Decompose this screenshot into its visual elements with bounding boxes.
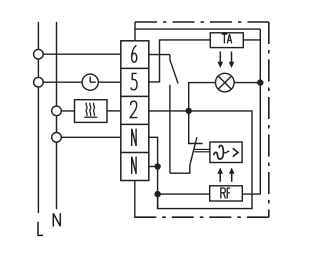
wire RF right — [242, 193, 260, 195]
arrow TA down 2 — [229, 52, 235, 69]
wire top bus — [135, 28, 260, 30]
terminal label 6 — [132, 45, 137, 62]
terminal label 2 — [130, 101, 137, 117]
wire L to clock to terminal 5 — [38, 81, 82, 83]
terminal label N2 — [132, 157, 136, 174]
lamp — [216, 73, 235, 92]
wire right rail — [259, 29, 261, 194]
wire terminal N bottom exit — [134, 181, 136, 218]
thermostat contact blade — [170, 165, 190, 173]
arrow thermostat up 2 — [229, 168, 235, 182]
node L tap 1 — [34, 49, 44, 59]
junction dot D4 — [154, 191, 160, 197]
junction dot D1 — [186, 108, 192, 114]
wire N supply line — [56, 22, 58, 209]
label L — [38, 222, 43, 236]
node N tap 1 — [52, 106, 62, 116]
wire thermostat fixed contact — [189, 111, 203, 144]
arrow TA down 1 — [218, 52, 224, 69]
enclosure border top (dash-dot) — [135, 21, 269, 23]
clock symbol (time switch) — [82, 74, 98, 90]
junction dot lamp-rail — [257, 79, 263, 85]
enclosure border bottom (dash-dot) — [132, 216, 269, 218]
wire N to heater to terminal 2 — [57, 110, 75, 112]
wire lamp left — [189, 83, 216, 111]
TA box — [210, 33, 243, 48]
wire TA to rail — [243, 39, 260, 41]
wire N to terminal N1 — [57, 136, 121, 138]
wire RF left — [158, 193, 210, 195]
node L tap 2 — [34, 77, 44, 87]
arrow thermostat up 1 — [217, 168, 223, 182]
switch S1 — [149, 55, 178, 174]
wire terminal 6 top exit — [134, 22, 136, 41]
label theta — [214, 145, 229, 159]
terminal label N1 — [132, 129, 136, 146]
wire terminal N1 internal — [149, 137, 158, 208]
junction dot D3 — [154, 163, 160, 169]
wire terminal N2 internal — [149, 166, 158, 168]
wire terminal 5 to TA — [149, 40, 211, 82]
mechanical link — [194, 148, 210, 150]
wire L supply line — [37, 22, 39, 213]
enclosure border right (dash-dot) — [268, 22, 270, 217]
terminal block — [121, 41, 149, 181]
label RF — [221, 188, 231, 199]
heater symbol — [75, 100, 108, 123]
label greater-than — [233, 148, 238, 156]
wire lamp right — [234, 82, 260, 84]
thermostat box U1 — [210, 142, 242, 163]
wire terminal 2 bus — [149, 111, 252, 209]
RF box — [210, 186, 243, 201]
node N tap 2 — [52, 133, 62, 143]
terminal label 5 — [131, 73, 137, 90]
label TA — [222, 34, 232, 43]
label N — [53, 213, 60, 226]
wire L to terminal 6 — [38, 53, 120, 55]
